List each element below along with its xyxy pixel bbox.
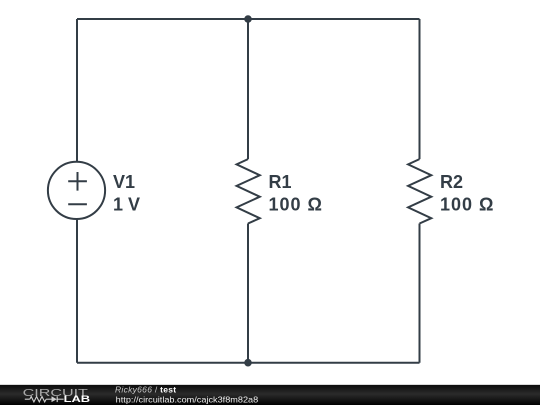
V1 minus sign <box>68 203 87 205</box>
logo resistor zigzag <box>30 397 46 402</box>
wire R1 bottom lead <box>247 224 249 363</box>
svg-text:R2: R2 <box>440 172 463 192</box>
wire top horizontal <box>77 18 420 20</box>
svg-text:V1: V1 <box>113 172 135 192</box>
resistor R1 zigzag <box>237 159 260 223</box>
svg-text:1 V: 1 V <box>113 194 140 214</box>
logo wire right <box>57 398 63 400</box>
wire R2 bottom lead <box>419 224 421 363</box>
logo diode cathode bar <box>56 396 58 402</box>
voltage source V1 circle <box>48 162 105 219</box>
svg-text:100 Ω: 100 Ω <box>440 194 494 214</box>
svg-text:Ricky666 / test: Ricky666 / test <box>115 385 176 395</box>
svg-text:http://circuitlab.com/cajck3f8: http://circuitlab.com/cajck3f8m82a8 <box>116 394 259 404</box>
node junction dot bottom <box>244 359 252 367</box>
resistor R2 zigzag <box>408 159 431 223</box>
wire left vertical upper <box>76 19 78 163</box>
svg-text:LAB: LAB <box>64 394 91 405</box>
logo diode triangle <box>52 396 57 402</box>
footer separator line <box>0 384 540 385</box>
wire R2 top lead <box>419 19 421 159</box>
V1 plus sign <box>68 172 87 191</box>
wire left vertical lower <box>76 219 78 363</box>
svg-text:100 Ω: 100 Ω <box>269 194 323 214</box>
svg-text:R1: R1 <box>269 172 292 192</box>
logo wire left <box>25 398 30 400</box>
wire R1 top lead <box>247 19 249 159</box>
node junction dot top <box>244 15 252 23</box>
wire bottom horizontal <box>77 362 420 364</box>
logo wire mid <box>46 398 51 400</box>
